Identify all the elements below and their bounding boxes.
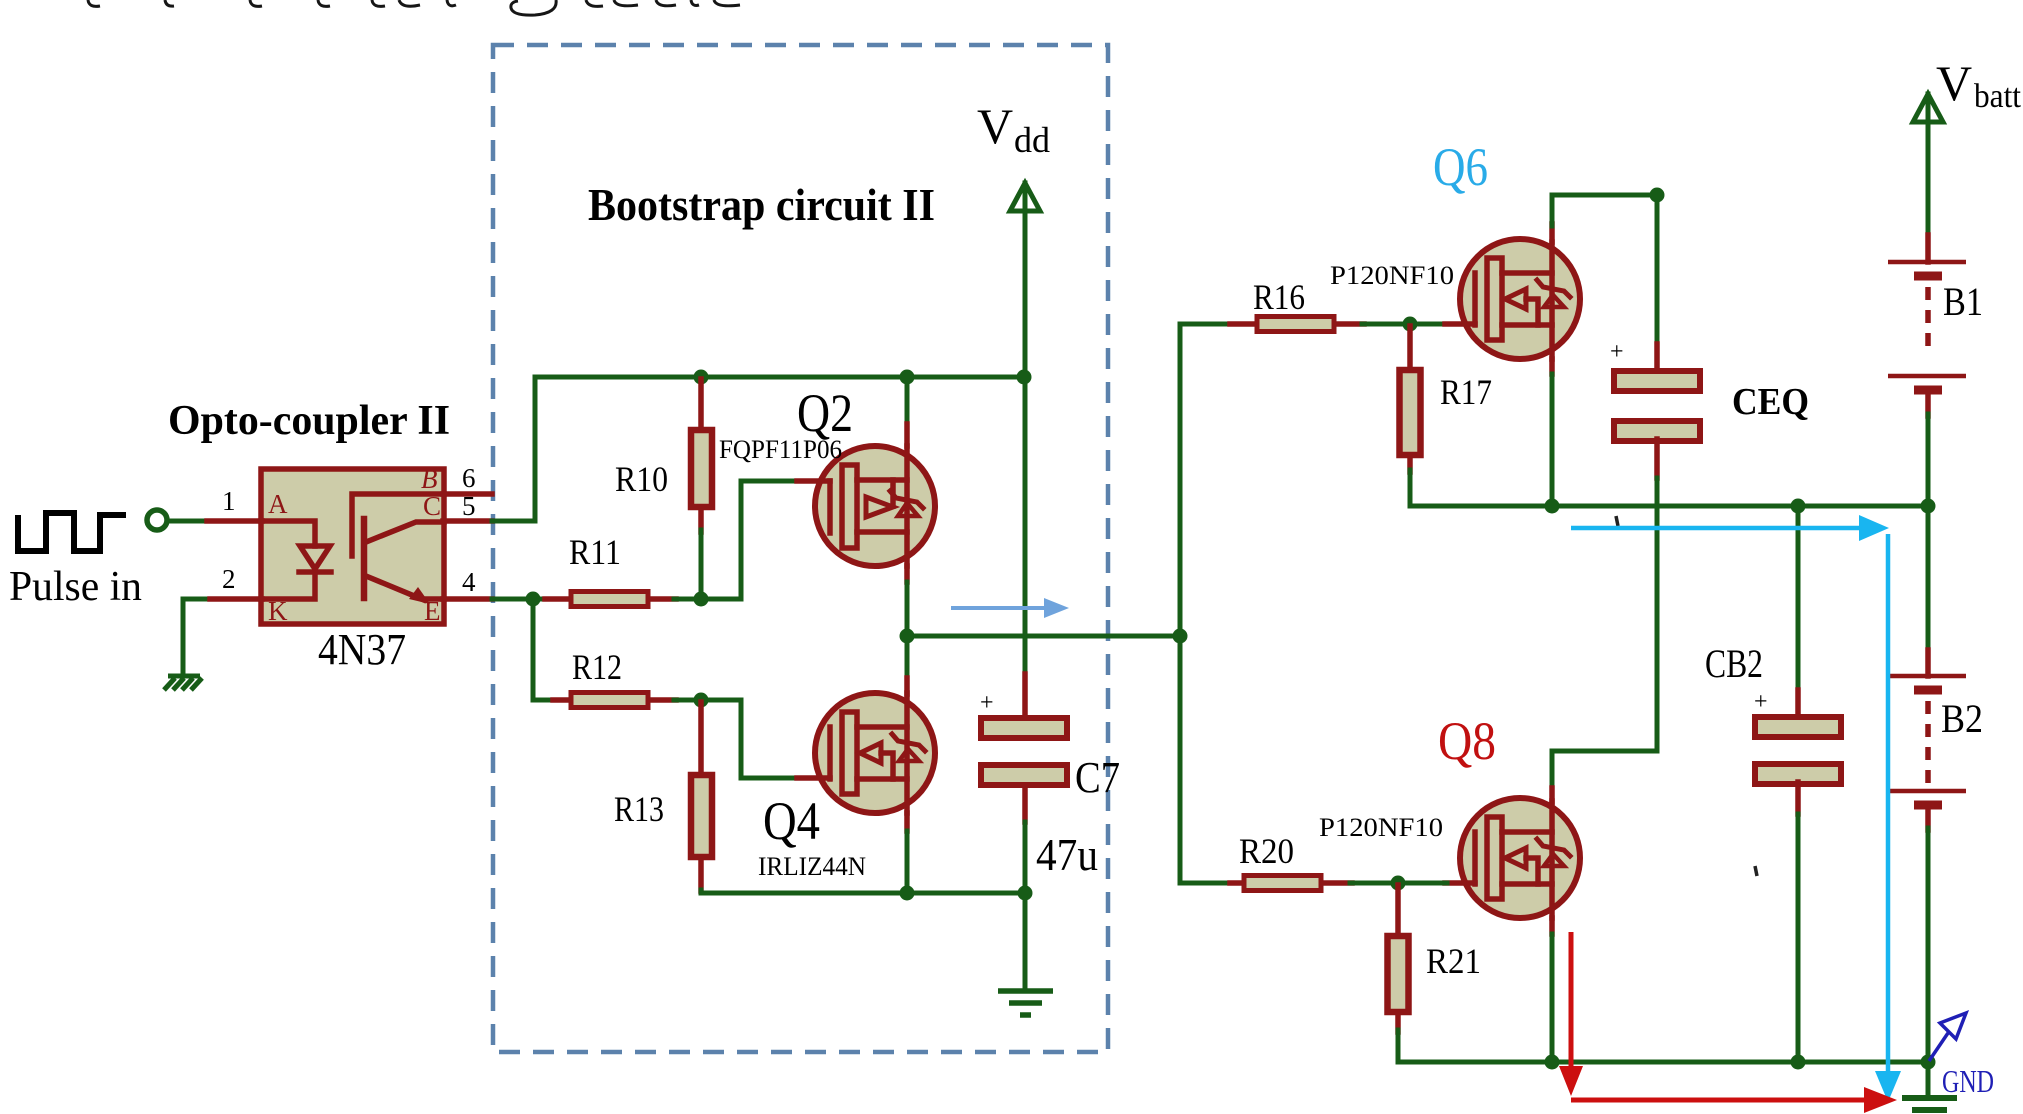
svg-text:Bootstrap circuit II: Bootstrap circuit II — [588, 179, 935, 230]
battery B1 — [1888, 235, 1983, 416]
node CB2 on bottom bus — [1791, 1055, 1806, 1070]
wire down to R12 row — [533, 599, 556, 700]
wire C7 bottom — [1022, 785, 1028, 822]
transistor Q6 (P120NF10 n-channel mosfet) — [1330, 137, 1580, 359]
svg-text:GND: GND — [1942, 1063, 1994, 1099]
node GND on bottom bus — [1921, 1055, 1936, 1070]
node C7 on bottom wire — [1018, 886, 1033, 901]
svg-text:R21: R21 — [1426, 941, 1481, 981]
node R20/R21 junction — [1391, 876, 1406, 891]
opto pin stubs — [207, 494, 492, 599]
Vbatt label — [1936, 55, 2022, 115]
wire CB2 bottom to bottom bus — [1795, 782, 1801, 814]
svg-text:+: + — [1610, 339, 1624, 365]
svg-text:1: 1 — [222, 486, 236, 516]
wire R11 to junction — [674, 597, 701, 602]
opto phototransistor — [352, 494, 444, 600]
resistor R17 — [1400, 326, 1493, 472]
node battery junction on bus — [1921, 499, 1936, 514]
svg-text:R13: R13 — [614, 789, 664, 829]
capacitor C7 47u — [980, 690, 1120, 880]
svg-text:2: 2 — [222, 564, 236, 594]
node rail Q2 drain — [900, 370, 915, 385]
wire R10 bottom to junction — [699, 530, 704, 599]
wire junction to Q2 gate riser — [701, 481, 797, 599]
svg-text:dd: dd — [1014, 120, 1050, 160]
svg-text:FQPF11P06: FQPF11P06 — [719, 435, 842, 464]
current arrow cyan horizontal — [1571, 515, 1889, 541]
annotation arrow (open blue) at GND — [1929, 1013, 1966, 1061]
wire R16 to junction — [1362, 322, 1410, 327]
partial caption text at top edge — [88, 0, 740, 15]
wire B2 to bottom bus — [1926, 828, 1931, 1062]
bottom bus wire — [1398, 1060, 1928, 1065]
resistor R11 — [545, 532, 676, 607]
wire junction to Q4 gate riser — [701, 700, 797, 778]
wire R21 bottom to bottom bus — [1396, 1030, 1401, 1062]
transistor Q4 (IRLIZ44N n-channel mosfet) — [758, 693, 935, 881]
resistor R20 — [1180, 831, 1352, 891]
current arrow red horizontal — [1571, 1087, 1897, 1113]
capacitor CEQ — [1610, 195, 1809, 441]
svg-text:B1: B1 — [1943, 279, 1983, 324]
transistor Q2 (FQPF11P06 p-channel mosfet) — [719, 383, 935, 566]
svg-text:IRLIZ44N: IRLIZ44N — [758, 852, 866, 881]
wire R17 bottom to mid bus — [1408, 470, 1413, 506]
svg-text:A: A — [268, 489, 288, 519]
wire R12 to junction — [674, 698, 701, 703]
wire Q4 drain — [905, 636, 910, 678]
svg-text:R17: R17 — [1440, 372, 1492, 412]
svg-text:B2: B2 — [1941, 696, 1983, 741]
svg-text:CEQ: CEQ — [1732, 381, 1809, 423]
wire input to pin1 — [168, 519, 207, 524]
svg-text:C7: C7 — [1075, 753, 1120, 802]
Vdd power arrow — [1010, 183, 1040, 377]
node CB2 on bus — [1791, 499, 1806, 514]
svg-text:6: 6 — [462, 463, 476, 493]
resistor R16 — [1180, 277, 1364, 332]
resistor R13 — [614, 702, 712, 891]
wire pin4 node — [492, 597, 545, 602]
wire B1 to bus junction — [1926, 414, 1931, 506]
svg-text:batt: batt — [1974, 78, 2022, 115]
wire Q8 source to bottom bus — [1549, 918, 1555, 934]
wire GND drop — [1926, 1062, 1931, 1098]
node Q4 source on bottom wire — [900, 886, 915, 901]
transistor Q8 (P120NF10 n-channel mosfet) — [1319, 711, 1580, 918]
ground (input) — [164, 676, 202, 690]
svg-text:4N37: 4N37 — [318, 625, 406, 674]
opto LED — [261, 521, 331, 599]
wire right feed vertical — [1178, 324, 1183, 883]
svg-text:Q6: Q6 — [1433, 137, 1488, 197]
node R16/R17 junction — [1403, 317, 1418, 332]
svg-text:+: + — [1754, 689, 1768, 715]
node R12/R13 junction — [694, 693, 709, 708]
svg-text:R16: R16 — [1253, 277, 1305, 317]
wire Q4 source to bottom — [904, 813, 910, 831]
svg-text:47u: 47u — [1036, 829, 1098, 880]
svg-text:Q8: Q8 — [1438, 711, 1496, 771]
node pin4 junction — [526, 592, 541, 607]
Vbatt power arrow — [1913, 94, 1943, 237]
node mid (Q2/Q4) — [900, 629, 915, 644]
capacitor CB2 — [1705, 506, 1841, 784]
wire mid node to right — [907, 634, 1180, 639]
svg-text:R20: R20 — [1239, 831, 1294, 871]
svg-text:Opto-coupler II: Opto-coupler II — [168, 398, 450, 444]
svg-text:Pulse in: Pulse in — [9, 564, 142, 610]
svg-text:R10: R10 — [615, 459, 668, 499]
opto-coupler U1 4N37 body — [261, 469, 444, 624]
node Q8 source on bottom bus — [1545, 1055, 1560, 1070]
svg-text:+: + — [980, 690, 994, 716]
ground GND (earth) — [1902, 1098, 1957, 1110]
input terminal node — [147, 510, 167, 530]
resistor R12 — [553, 647, 676, 708]
svg-text:R12: R12 — [572, 647, 622, 687]
wire CEQ bottom down to Q8 drain link — [1654, 439, 1660, 478]
wire Vdd down to C7 — [1023, 377, 1028, 674]
wire pin5 to Vdd rail — [492, 377, 1024, 521]
svg-text:R11: R11 — [569, 532, 621, 572]
svg-text:5: 5 — [462, 491, 476, 521]
svg-text:V: V — [1936, 55, 1972, 111]
wire Q6 source to mid bus — [1549, 359, 1555, 374]
wire junction to Q8 gate — [1398, 881, 1447, 886]
wire bus junction to B2 — [1926, 506, 1931, 652]
svg-text:P120NF10: P120NF10 — [1319, 813, 1443, 842]
wire bootstrap bottom — [701, 890, 1025, 893]
svg-text:P120NF10: P120NF10 — [1330, 261, 1454, 290]
wire Q2 drain — [905, 377, 910, 424]
svg-text:B: B — [421, 464, 438, 494]
svg-text:4: 4 — [462, 567, 476, 597]
wire Q2 source to mid node — [904, 566, 910, 582]
wire pin2 to ground — [183, 599, 210, 673]
node mid wire to feed vertical — [1173, 629, 1188, 644]
mid bus wire — [1410, 504, 1928, 509]
wire Q6 drain to top link — [1549, 224, 1555, 242]
current arrow red vertical — [1559, 932, 1583, 1096]
node rail R10 — [694, 370, 709, 385]
dashed bootstrap box — [493, 45, 1108, 1052]
current arrow cyan vertical to GND — [1875, 534, 1901, 1102]
node top link / CEQ — [1650, 188, 1665, 203]
node R11/R10 junction — [694, 592, 709, 607]
svg-text:Q2: Q2 — [797, 383, 853, 443]
stray tick mark — [1616, 516, 1618, 526]
svg-text:CB2: CB2 — [1705, 641, 1763, 686]
svg-text:Q4: Q4 — [763, 791, 820, 851]
resistor R10 — [615, 379, 712, 532]
current arrow (soft blue) mid — [951, 598, 1069, 618]
battery B2 — [1890, 650, 1983, 830]
node Q6 source on bus — [1545, 499, 1560, 514]
Vdd label — [977, 98, 1050, 160]
pulse waveform icon — [18, 513, 126, 551]
ground (bootstrap) — [998, 991, 1053, 1015]
node rail Vdd — [1017, 370, 1032, 385]
svg-text:V: V — [977, 98, 1013, 154]
resistor R21 — [1388, 885, 1482, 1032]
wire R20 to junction — [1350, 881, 1398, 886]
stray tick mark 2 — [1755, 866, 1757, 876]
wire junction to Q6 gate — [1410, 322, 1447, 327]
wire C7 to ground — [1023, 893, 1028, 989]
